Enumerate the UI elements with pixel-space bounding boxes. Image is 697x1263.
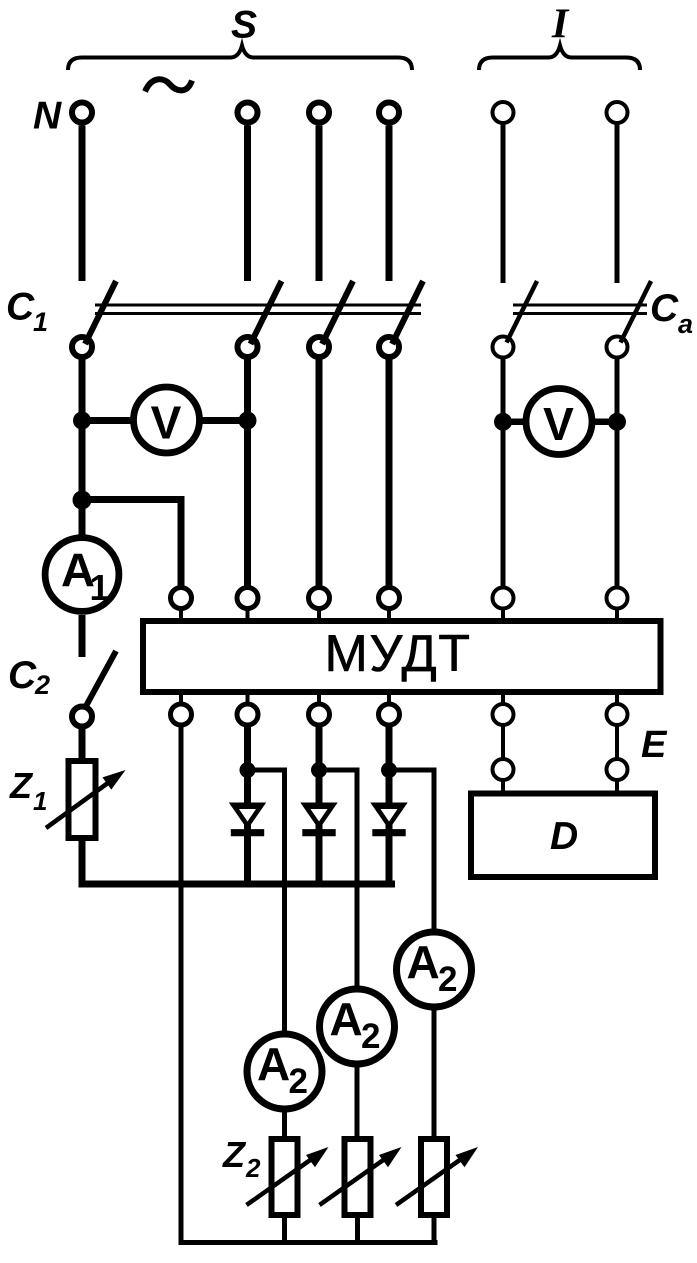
block MUDT xyxy=(143,621,661,692)
svg-text:1: 1 xyxy=(90,567,110,608)
svg-text:A: A xyxy=(330,993,363,1045)
junction dot diode 4 xyxy=(381,762,397,778)
terminal L1 top xyxy=(72,103,92,123)
brace I xyxy=(479,46,640,71)
voltmeter V left wires xyxy=(82,417,132,424)
contact circle L4 xyxy=(379,337,399,357)
switch C2 blade xyxy=(86,651,116,706)
wire L3 top xyxy=(316,126,323,282)
diode VD1 xyxy=(229,803,266,830)
MUDT bottom terminal 2 xyxy=(246,692,250,704)
MUDT bottom terminal 5 xyxy=(501,692,505,704)
wire return column xyxy=(181,725,438,1243)
contactor C1 blade 3 xyxy=(322,281,353,344)
wire L4 top xyxy=(386,126,393,282)
svg-text:a: a xyxy=(678,309,693,339)
wire diode column 3 xyxy=(316,725,323,884)
svg-text:C: C xyxy=(6,286,35,329)
svg-text:N: N xyxy=(33,95,62,138)
MUDT bottom terminal 1 xyxy=(179,692,183,704)
junction dot L2-V xyxy=(239,412,257,430)
MUDT top terminal 1 xyxy=(171,588,192,609)
MUDT top terminal 3 xyxy=(309,588,330,609)
contactor Ca blade 2 xyxy=(621,281,652,343)
wire L5 top xyxy=(501,124,506,283)
Z1 arrow xyxy=(46,780,112,828)
E terminal row circles L6 xyxy=(615,725,619,759)
ammeter A1 xyxy=(45,538,119,612)
svg-text:A: A xyxy=(257,1038,290,1090)
contact circle L6 xyxy=(607,337,628,358)
contactor C1 linkage xyxy=(95,304,421,307)
junction dot diode 3 xyxy=(311,762,327,778)
MUDT top terminal 4 xyxy=(379,588,400,609)
terminal L3 top xyxy=(309,103,329,123)
wire L6 top xyxy=(615,124,620,283)
junction dot N branch xyxy=(73,491,92,510)
contact circle L3 xyxy=(309,337,329,357)
brace S xyxy=(68,46,412,71)
svg-text:S: S xyxy=(231,4,257,47)
voltmeter V left xyxy=(134,387,200,453)
wire diode column 4 xyxy=(386,725,393,884)
svg-text:D: D xyxy=(550,815,578,858)
svg-text:2: 2 xyxy=(34,670,50,700)
wire L2 top xyxy=(244,126,251,282)
svg-text:C: C xyxy=(650,287,679,330)
MUDT top terminal 6 xyxy=(607,588,628,609)
junction dot L5-V xyxy=(494,413,512,431)
wire N branch bend xyxy=(82,500,181,589)
contact circle L2 xyxy=(238,337,258,357)
wire L4 mid xyxy=(386,359,393,588)
junction dot L1-V xyxy=(73,412,91,430)
ammeter A2-3 xyxy=(397,932,472,1007)
wire L2 mid xyxy=(244,359,251,588)
wire L1 mid xyxy=(79,359,86,537)
block D xyxy=(471,794,655,878)
svg-text:V: V xyxy=(151,397,182,449)
voltmeter V right xyxy=(526,389,592,455)
bent wire to A2-1 xyxy=(248,770,285,1035)
bus wire xyxy=(79,881,396,888)
contactor Ca blade 1 xyxy=(507,281,538,343)
svg-text:Z: Z xyxy=(222,1134,247,1175)
wire L5 mid xyxy=(501,358,506,589)
svg-text:1: 1 xyxy=(33,307,48,337)
bent wire to A2-2 xyxy=(319,770,357,990)
wire C2 to Z1 xyxy=(79,729,86,762)
svg-text:1: 1 xyxy=(33,786,47,816)
svg-text:2: 2 xyxy=(245,1153,261,1183)
ammeter A2-2 xyxy=(320,989,395,1064)
junction dot L6-V xyxy=(608,413,626,431)
svg-text:A: A xyxy=(407,936,440,988)
svg-text:МУДТ: МУДТ xyxy=(325,625,472,683)
contactor Ca linkage xyxy=(513,304,647,307)
MUDT top terminal 2 xyxy=(237,588,258,609)
ammeter A2-1 xyxy=(247,1034,322,1109)
contactor C1 blade 4 xyxy=(392,281,423,344)
contactor C1 blade 2 xyxy=(251,281,282,344)
impedance Z2-2 xyxy=(345,1139,371,1215)
voltmeter V right wires xyxy=(503,419,528,426)
svg-text:2: 2 xyxy=(289,1062,308,1101)
svg-text:2: 2 xyxy=(438,960,457,999)
contact circle L5 xyxy=(493,337,514,358)
terminal L4 top xyxy=(379,103,399,123)
terminal L2 top xyxy=(238,103,258,123)
E terminal row circles L5 xyxy=(501,725,505,759)
diode VD3 xyxy=(370,803,407,830)
wire L3 mid xyxy=(316,359,323,588)
terminal L6 top xyxy=(607,102,628,123)
svg-text:V: V xyxy=(543,398,574,450)
wire diode column 2 xyxy=(244,725,251,884)
svg-text:C: C xyxy=(8,654,37,697)
AC tilde xyxy=(145,79,192,91)
MUDT top terminal 5 xyxy=(493,588,514,609)
contact circle L1 xyxy=(72,337,92,357)
diode VD2 xyxy=(300,803,337,830)
bent wire to A2-3 xyxy=(389,770,434,933)
svg-text:2: 2 xyxy=(361,1017,380,1056)
impedance Z2-3 xyxy=(421,1139,447,1215)
terminal L5 top xyxy=(493,102,514,123)
MUDT bottom terminal 6 xyxy=(615,692,619,704)
MUDT bottom terminal 3 xyxy=(317,692,321,704)
wire L1 top xyxy=(79,126,86,282)
wire L6 mid xyxy=(615,358,620,589)
contactor C1 blade 1 xyxy=(85,281,116,344)
MUDT bottom terminal 4 xyxy=(387,692,391,704)
wire below A1 xyxy=(79,615,86,657)
svg-text:E: E xyxy=(641,724,668,766)
impedance Z1 xyxy=(69,761,96,838)
svg-text:Z: Z xyxy=(9,765,34,806)
junction dot diode 2 xyxy=(240,762,256,778)
impedance Z2-1 xyxy=(272,1139,298,1215)
wire Z1 to bus xyxy=(79,838,86,884)
switch C2 circle xyxy=(72,707,92,727)
